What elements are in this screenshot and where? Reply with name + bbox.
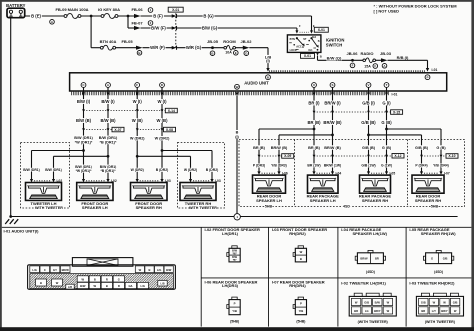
wire RADIO to JB-03 (376, 59, 382, 61)
header I-06 REAR DOOR SPEAKER LH(DR3) (205, 279, 258, 288)
connector X-08 dashed row (136, 128, 164, 131)
label 5HB left (265, 204, 273, 208)
front door speaker RH terminal labels (130, 168, 169, 172)
svg-text:X-01: X-01 (304, 54, 311, 58)
splice B below FB-05 (137, 51, 142, 56)
label REAR DOOR SPEAKER RH (415, 194, 441, 203)
svg-text:(5HB): (5HB) (296, 319, 305, 323)
svg-text:W: W (300, 250, 303, 254)
wire junction down to BTN fuse (90, 16, 92, 48)
junction FB-06/FB-07 (127, 15, 130, 18)
wire branch w4 to tweeter RH (162, 150, 212, 152)
pin V circle (366, 83, 371, 88)
svg-text:F: F (352, 63, 354, 67)
svg-text:RH(DR2): RH(DR2) (289, 231, 306, 236)
wire B (G) (176, 15, 311, 17)
label B/W (Q) (326, 56, 342, 61)
connector X-01 label box (ignition top) (314, 27, 328, 32)
svg-text:ST: ST (303, 38, 307, 41)
svg-text:W (DR2): W (DR2) (184, 168, 197, 172)
wire rear 2 vertical (332, 88, 334, 173)
svg-text:BR (B): BR (B) (253, 146, 266, 150)
svg-text:B: B (300, 257, 302, 261)
svg-text:JB-02: JB-02 (241, 39, 253, 44)
svg-text:*B (DR1)*: *B (DR1)* (100, 169, 116, 173)
connector I-05 rear package RH pinout (423, 250, 453, 263)
ground splice circle (234, 214, 240, 220)
wire branch to rear door RH - (387, 128, 442, 130)
label BR/W (I) (324, 101, 342, 106)
svg-text:JB-05: JB-05 (207, 39, 219, 44)
connector mark X-01 row2 (172, 26, 177, 30)
pin F triangle (136, 92, 139, 96)
arrow JB-02 (243, 46, 250, 50)
tweeter RH terminal labels (184, 168, 219, 172)
header I-05 REAR PACKAGE SPEAKER RH(1W) (409, 227, 456, 236)
svg-text:G: G (431, 257, 433, 261)
svg-text:BR/W: BR/W (62, 268, 70, 272)
svg-text:T: T (386, 83, 388, 87)
svg-text:LG: LG (365, 309, 369, 313)
pin T triangle (385, 92, 388, 96)
bottom panel divider v1 (200, 227, 202, 326)
svg-text:BR/W (B): BR/W (B) (323, 120, 342, 125)
wire JB-02 to audio unit (249, 47, 268, 49)
svg-text:G/B: G/B (364, 301, 369, 305)
connector I-04 rear package LH (312, 171, 341, 175)
svg-text:LOCK: LOCK (290, 49, 297, 52)
svg-text:P: P (426, 75, 428, 79)
pin F circle (135, 83, 140, 88)
svg-text:BR (B): BR (B) (307, 120, 321, 125)
svg-text:E: E (235, 51, 237, 55)
svg-text:Y/B (DR4): Y/B (DR4) (433, 164, 449, 168)
svg-text:BR (I): BR (I) (308, 101, 320, 106)
ground bus wire (11, 216, 458, 218)
svg-text:W (I): W (I) (133, 99, 143, 104)
svg-text:X-07: X-07 (114, 128, 121, 132)
svg-text:W (DR2): W (DR2) (155, 137, 170, 141)
pin A triangle (106, 92, 109, 96)
speaker rear package LH (308, 175, 339, 193)
fuse IG KEY 80A (98, 7, 120, 18)
svg-text:G (B): G (B) (381, 120, 392, 125)
junction rear w4 (385, 128, 388, 131)
svg-text:Y/B: Y/B (232, 309, 237, 313)
junction rear w1 (313, 128, 316, 131)
svg-text:B/W: B/W (166, 268, 172, 272)
label G (B) c3 (436, 145, 447, 150)
label B/W (G) (202, 26, 218, 31)
svg-text:B: B (320, 55, 322, 59)
svg-text:X-01: X-01 (172, 8, 179, 12)
audio unit top connector hatch (270, 70, 425, 72)
tweeter LH terminal labels (23, 168, 62, 172)
junction w2 branch (107, 155, 110, 158)
audio unit bottom connector hatch (72, 92, 389, 96)
svg-text:FB-06: FB-06 (131, 7, 143, 12)
ignition switch box (287, 35, 321, 53)
svg-text:SPEAKER RH: SPEAKER RH (415, 198, 441, 203)
speaker tweeter LH (26, 183, 62, 201)
svg-text:RH(DR4): RH(DR4) (289, 283, 306, 288)
svg-text:L/Y: L/Y (432, 309, 436, 313)
pin W circle (235, 84, 240, 89)
label REAR DOOR SPEAKER LH (256, 194, 282, 203)
svg-text:Y/B (DR3): Y/B (DR3) (271, 164, 287, 168)
svg-text:B (E): B (E) (31, 14, 41, 19)
svg-text:B/W: B/W (80, 284, 86, 288)
svg-text:G: G (118, 277, 120, 281)
svg-text:W: W (443, 301, 446, 305)
connector mark X-01 row3 (172, 46, 177, 50)
svg-text:W: W (236, 85, 239, 89)
svg-text:B: B (94, 277, 96, 281)
header I-03 FRONT DOOR SPEAKER RH(DR2) (272, 227, 327, 236)
svg-text:X-08: X-08 (166, 128, 173, 132)
splice A2 (382, 64, 387, 69)
wire front 2 vertical (107, 88, 109, 180)
svg-text:P (DR3): P (DR3) (253, 164, 265, 168)
svg-text:L/B: L/B (68, 286, 72, 289)
label G/B (B) c3 (414, 145, 429, 150)
label B/W (I) w1 (76, 99, 91, 104)
label B/W (I) w2 (101, 99, 116, 104)
wire BTN to FB-05 (116, 47, 137, 49)
svg-text:BR (1W): BR (1W) (307, 164, 320, 168)
svg-text:G/B (I): G/B (I) (362, 101, 375, 106)
svg-text:R: R (106, 277, 108, 281)
speaker rear package RH (360, 175, 391, 193)
svg-text:LH(DR1): LH(DR1) (222, 231, 239, 236)
splice C (373, 64, 378, 69)
label W (I) w4 (157, 99, 168, 104)
label G/B (B) (361, 120, 377, 125)
pin W triangle (235, 92, 238, 96)
svg-text:BATTERY: BATTERY (6, 3, 26, 8)
svg-text:(WITH TWEETER): (WITH TWEETER) (425, 320, 456, 324)
svg-text:G/B (B): G/B (B) (362, 146, 376, 150)
rear dashed divider left (294, 140, 296, 207)
pin P (R/B) circle (425, 75, 430, 80)
connector I-01 audio unit pinout (28, 258, 176, 290)
svg-text:WITH TWEETER: WITH TWEETER (35, 206, 63, 210)
svg-text:*W (DR1)*: *W (DR1)* (76, 169, 93, 173)
label W/R (F) (150, 45, 166, 50)
wire W/R (F) (143, 47, 175, 49)
svg-text:B/W: B/W (375, 301, 381, 305)
svg-text:G/B (B): G/B (B) (361, 120, 376, 125)
wire B/W (F) (141, 27, 175, 29)
label W (DR2) w3 (130, 136, 146, 141)
svg-text:W: W (433, 301, 436, 305)
wire B/W (G) drop to ignition switch (296, 28, 298, 31)
svg-text:W (B): W (B) (157, 118, 169, 123)
svg-text:BR/W (B): BR/W (B) (324, 146, 341, 150)
svg-text:X-15: X-15 (393, 110, 400, 114)
label W (B) w3 (131, 118, 143, 123)
svg-text:W (DR2): W (DR2) (130, 137, 145, 141)
wire rear 1 vertical (313, 88, 315, 173)
connector X-08 label box (164, 127, 176, 132)
svg-text:R: R (118, 284, 120, 288)
connector X-15 label box (391, 110, 403, 115)
svg-text:X-09: X-09 (284, 154, 291, 158)
label G (1W) (381, 164, 392, 168)
header I-04 REAR PACKAGE SPEAKER LH(1W) (341, 227, 387, 236)
wire ROOM to JB-02 (236, 47, 244, 49)
connector X-12 label box (392, 154, 404, 159)
pin D circle (160, 83, 165, 88)
svg-text:L/B: L/B (160, 283, 164, 286)
label 5HB right (431, 204, 439, 208)
svg-text:4SD: 4SD (343, 205, 350, 209)
connector mark X-01 row1 (172, 14, 177, 18)
wire audio ground B (I) (236, 96, 238, 214)
label Y/B (DR3) (270, 164, 288, 168)
wire B/W (G) (176, 27, 297, 29)
svg-text:R/B (I): R/B (I) (397, 55, 409, 60)
pin C circle (81, 83, 86, 88)
svg-text:W: W (94, 284, 97, 288)
svg-text:W (B): W (B) (132, 118, 144, 123)
header I-02 FRONT DOOR SPEAKER LH(DR1) (205, 227, 260, 236)
svg-text:I-01 AUDIO UNIT(I): I-01 AUDIO UNIT(I) (4, 229, 40, 234)
label G/B (I) (361, 101, 376, 106)
svg-text:ROOM: ROOM (223, 39, 236, 44)
svg-text:P (DR4): P (DR4) (415, 164, 427, 168)
label G/B (1W) (361, 164, 376, 168)
label IGNITION SWITCH (326, 38, 345, 48)
svg-text:*W (DR1)*: *W (DR1)* (75, 140, 93, 144)
connector X-01 dashed line (175, 13, 177, 49)
wire branch to rear door LH - (279, 134, 333, 136)
bottom panel divider v4 (405, 227, 407, 326)
svg-text:BR/W (B): BR/W (B) (271, 146, 288, 150)
svg-text:AUDIO UNIT: AUDIO UNIT (244, 80, 269, 85)
label P (DR4) (415, 164, 429, 168)
label BR (B) c2 (308, 145, 321, 150)
svg-text:B (DR2): B (DR2) (156, 168, 168, 172)
svg-text:W: W (82, 277, 85, 281)
battery (6, 3, 26, 18)
audio unit box (70, 73, 447, 91)
svg-text:BR/W (I): BR/W (I) (324, 101, 341, 106)
pin A circle (106, 83, 111, 88)
label B (I) (234, 130, 240, 139)
tweeter LH dashed box (21, 143, 70, 209)
svg-text:(4SD): (4SD) (434, 270, 443, 274)
label REAR PACKAGE SPEAKER LH (307, 194, 339, 203)
svg-text:L/G: L/G (141, 284, 145, 288)
pin C triangle (82, 92, 85, 96)
ignition bottom pin B (316, 52, 322, 58)
svg-text:BR: BR (375, 257, 379, 261)
wire front 4 vertical (161, 88, 163, 180)
svg-text:W/R (F): W/R (F) (150, 45, 165, 50)
connector X-07 label box (112, 127, 124, 132)
splice A (50, 20, 55, 25)
svg-text:SPEAKER RH(1W): SPEAKER RH(1W) (421, 231, 457, 236)
label BR/W (1W) (324, 164, 341, 168)
junction w3 branch (136, 155, 139, 158)
speaker front door LH (77, 183, 113, 201)
pin triangle R/B at audio unit (426, 68, 429, 72)
label BR (I) (307, 101, 320, 106)
label with tweeter RH (189, 206, 217, 210)
svg-text:I-03 TWEETER RH(DR2): I-03 TWEETER RH(DR2) (409, 280, 455, 285)
svg-text:SPEAKER LH: SPEAKER LH (256, 198, 282, 203)
pin S triangle (331, 92, 334, 96)
label W (DR2) w4 (154, 136, 170, 141)
wire IG KEY to FB-06 (118, 15, 134, 17)
connector I-03 front door RH pinout (293, 246, 306, 262)
svg-text:B/W (Q): B/W (Q) (327, 56, 342, 61)
rear body dashed box (239, 140, 465, 207)
svg-text:10A: 10A (225, 51, 232, 55)
bottom panel row divider (201, 277, 471, 279)
pin D triangle (160, 92, 163, 96)
svg-text:B/W (B): B/W (B) (76, 118, 92, 123)
splice F (350, 63, 355, 68)
svg-text:B: B (40, 281, 42, 285)
svg-text:*W*: *W* (232, 252, 236, 255)
svg-text:SPEAKER RH: SPEAKER RH (362, 198, 388, 203)
svg-text:BR/Y: BR/Y (374, 309, 381, 313)
wire branch to rear door LH + (259, 128, 314, 130)
connector X-09 label box (282, 154, 294, 159)
connector I-04 rear package LH pinout (355, 250, 385, 263)
connector I-07 rear door RH pinout (293, 297, 306, 315)
label B/W (B) w2 (100, 118, 116, 123)
label G (B) (381, 120, 393, 125)
label G (B) c2 (381, 145, 392, 150)
connector X-15 dashed row (313, 111, 391, 114)
svg-text:F: F (136, 83, 138, 87)
svg-text:*B (DR1)*: *B (DR1)* (100, 140, 117, 144)
junction JB-05 (211, 46, 214, 49)
svg-text:X-12: X-12 (394, 154, 401, 158)
wire branch w1 to tweeter LH (32, 150, 84, 152)
label W/R (G) (186, 45, 202, 50)
wire FB-09 to junction (81, 15, 101, 17)
svg-text:I-02 TWEETER LH(DR1): I-02 TWEETER LH(DR1) (341, 280, 386, 285)
pin triangle L/B at audio unit (266, 68, 269, 72)
svg-text:FB-05: FB-05 (121, 39, 133, 44)
pin S circle (330, 83, 335, 88)
svg-text:W (DR2): W (DR2) (131, 168, 144, 172)
wire battery to FB-09 (B (E)) (25, 15, 64, 17)
wire junction down to FB-07 (127, 16, 129, 28)
connector I-02 front door LH (82, 179, 117, 183)
svg-text:IG2: IG2 (312, 36, 317, 39)
label B/W (DR1) w1 (74, 136, 93, 145)
svg-text:SPEAKER LH: SPEAKER LH (82, 205, 108, 210)
connector I-02 front door LH pinout (227, 246, 240, 262)
svg-text:BTN: BTN (290, 38, 295, 41)
speaker rear door RH (412, 175, 444, 193)
splice B below JB-05 (210, 51, 215, 56)
label W (B) w4 (156, 118, 168, 123)
label B/W (F) (151, 26, 167, 31)
wire W/R (G) (176, 47, 223, 49)
svg-text:*B*: *B* (233, 259, 237, 262)
svg-text:B/W (B): B/W (B) (100, 118, 116, 123)
label Y/B (DR4) (432, 164, 450, 168)
label BR/W (B) (323, 120, 342, 125)
bottom panel top border (2, 226, 472, 228)
label REAR PACKAGE SPEAKER RH (359, 194, 391, 203)
svg-text:I-01: I-01 (392, 93, 398, 97)
connector X-14 dashed row (82, 109, 165, 112)
svg-text:B: B (318, 40, 320, 43)
svg-text:BR/W (1W): BR/W (1W) (324, 164, 341, 168)
svg-text:JB-06: JB-06 (347, 51, 359, 56)
svg-text:BR (B): BR (B) (308, 146, 321, 150)
arrow FB-07 (134, 26, 141, 30)
svg-text:(I): (I) (266, 58, 270, 63)
connector X-07 dashed row (82, 128, 112, 131)
connector X-01 ignition top pins (295, 24, 315, 34)
connector I-02 tweeter LH (30, 179, 62, 183)
junction rear w3 (367, 134, 370, 137)
label 4SD (343, 204, 351, 208)
wire rear 3 vertical (368, 88, 370, 173)
connector I-05 rear package RH (367, 171, 395, 175)
svg-text:G (1W): G (1W) (381, 164, 392, 168)
svg-text:S: S (331, 83, 333, 87)
connector I-06 rear door LH (257, 171, 287, 175)
connector I-06 rear door LH pinout (227, 297, 240, 315)
wire R/B (I) to audio unit (388, 59, 428, 61)
svg-text:C: C (44, 268, 46, 272)
rear dashed divider right (407, 140, 409, 207)
svg-text:G/B: G/B (421, 301, 426, 305)
svg-text:B (G): B (G) (203, 14, 214, 19)
pin T circle (384, 83, 389, 88)
label FRONT DOOR SPEAKER RH (135, 201, 162, 210)
header I-07 REAR DOOR SPEAKER RH(DR4) (272, 279, 325, 288)
label B/W (DR1) w2 (99, 136, 118, 145)
label W (I) w3 (132, 99, 143, 104)
svg-text:I-07: I-07 (444, 171, 450, 175)
svg-text:SWITCH: SWITCH (326, 43, 343, 48)
svg-text:G/B: G/B (453, 301, 458, 305)
speaker rear door LH (253, 175, 286, 193)
svg-text:G (I): G (I) (382, 101, 391, 106)
svg-text:SPEAKER LH(1W): SPEAKER LH(1W) (353, 231, 388, 236)
svg-text:[ ] NOT USED: [ ] NOT USED (374, 9, 400, 14)
svg-text:W: W (387, 309, 390, 313)
svg-text:B/W (I): B/W (I) (101, 99, 115, 104)
svg-text:G/L: G/L (129, 284, 134, 288)
label B (G) (203, 14, 215, 19)
svg-text:SPEAKER LH: SPEAKER LH (310, 198, 336, 203)
svg-text:W/R (G): W/R (G) (186, 45, 202, 50)
label B (E) (30, 14, 42, 19)
svg-text:GY: GY (53, 268, 57, 272)
svg-text:G/B (B): G/B (B) (415, 146, 429, 150)
svg-text:W: W (139, 268, 142, 272)
wire battery negative down (10, 18, 12, 217)
fuse ROOM 10A (223, 39, 236, 50)
wire front 3 vertical (136, 88, 138, 180)
svg-text:W: W (56, 281, 59, 285)
wire rear 4 vertical (386, 88, 388, 173)
wire B (G) drop to ignition switch (311, 16, 313, 31)
label FRONT DOOR SPEAKER LH (81, 201, 108, 210)
circled 1 (148, 8, 153, 13)
